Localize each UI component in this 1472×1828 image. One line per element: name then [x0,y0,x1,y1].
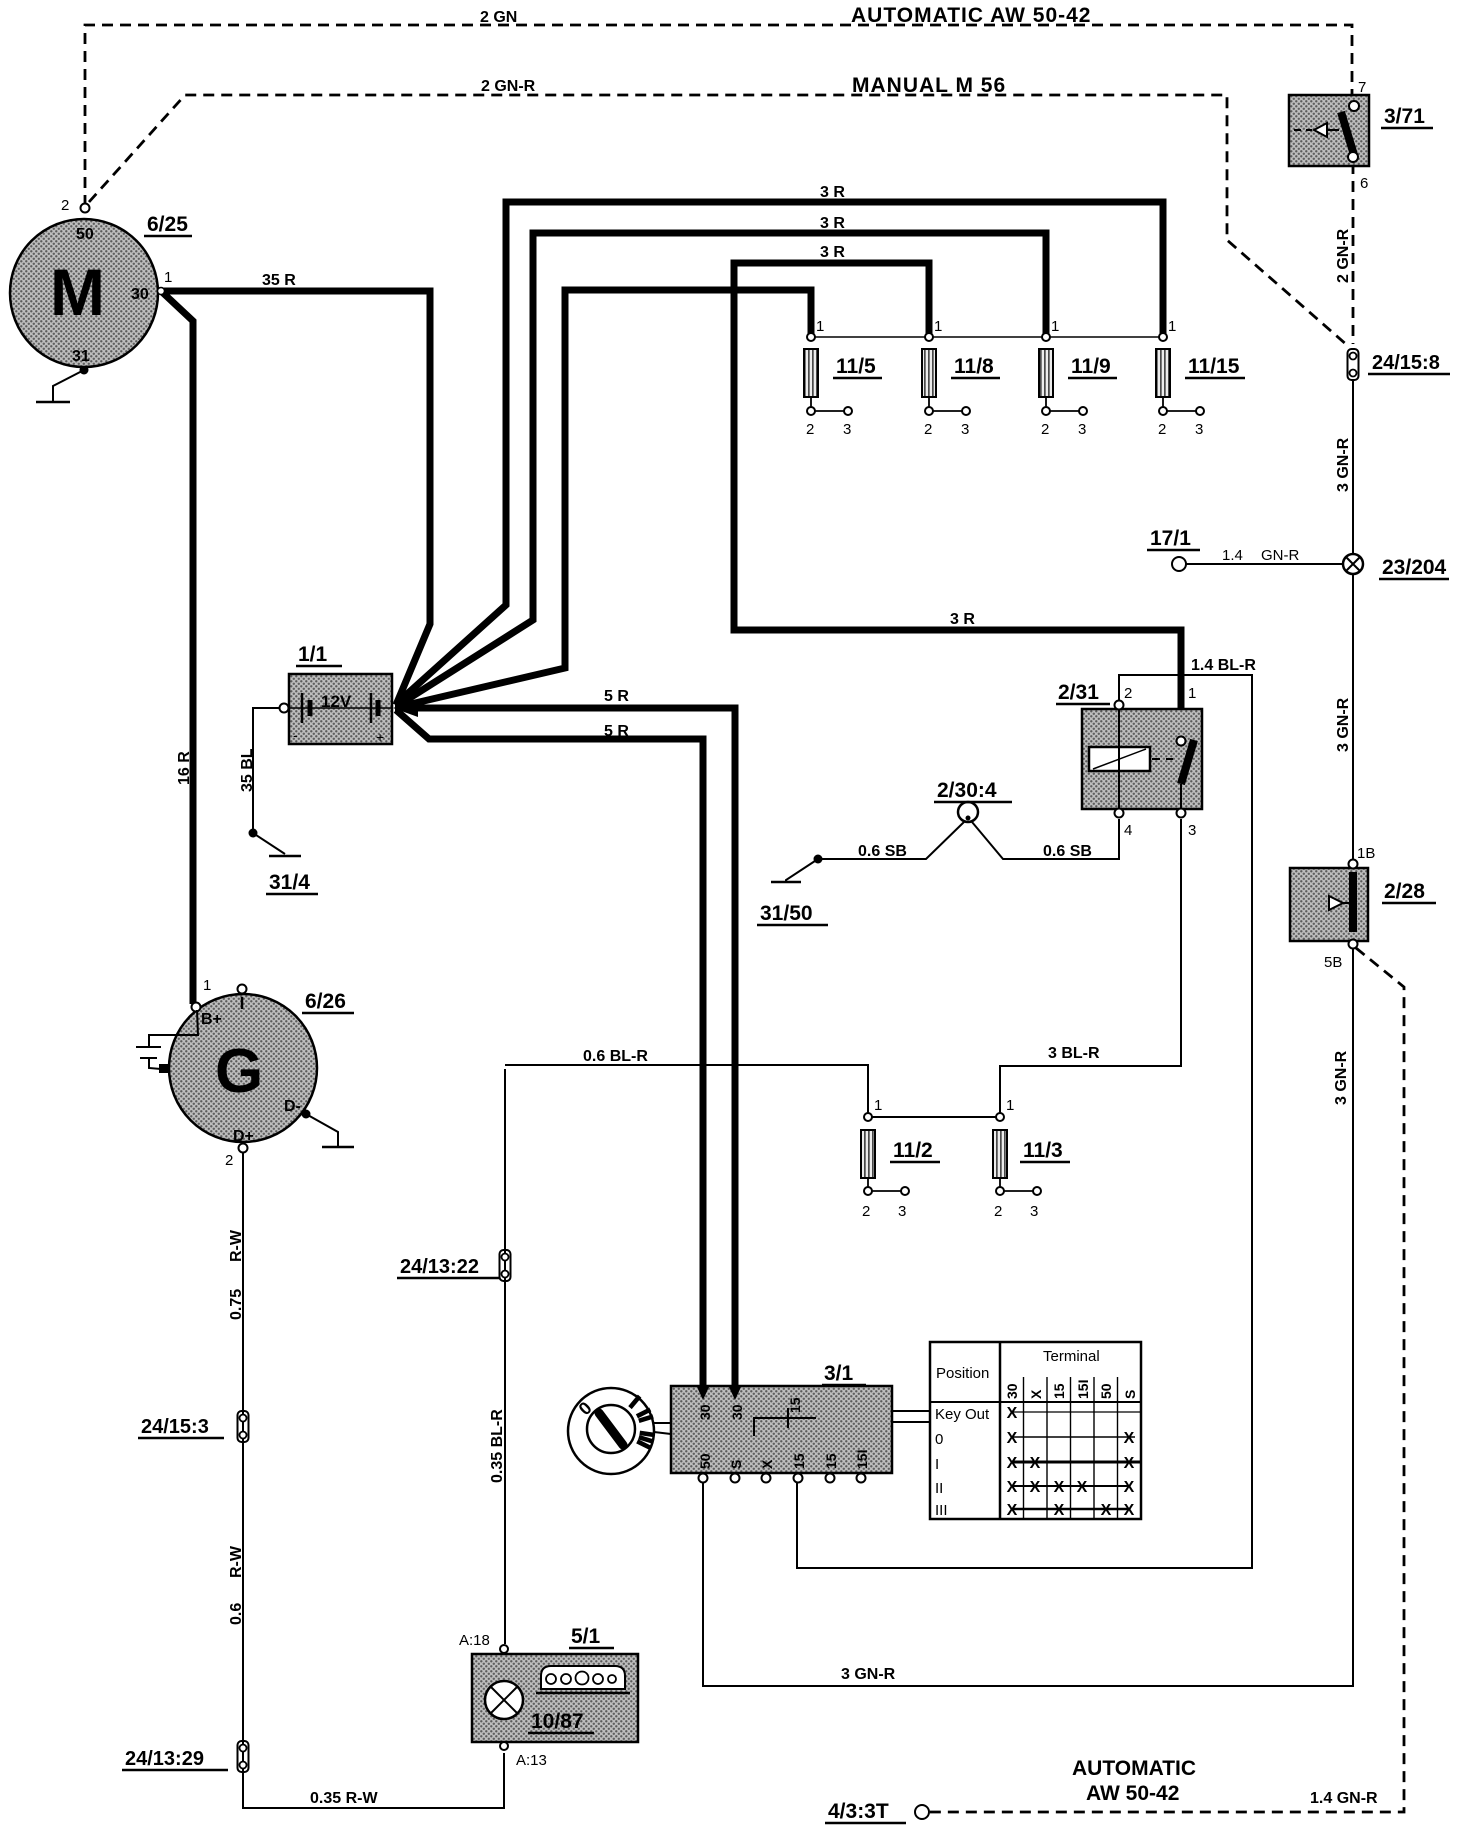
svg-text:X: X [759,1459,775,1469]
svg-text:X: X [1124,1479,1135,1496]
svg-text:3: 3 [843,421,851,438]
svg-text:6/25: 6/25 [147,213,188,236]
svg-text:3 BL-R: 3 BL-R [1048,1045,1100,1062]
svg-text:2: 2 [1041,421,1049,438]
svg-text:0.35 R-W: 0.35 R-W [310,1790,378,1807]
svg-text:M: M [50,255,105,329]
svg-text:3: 3 [1030,1203,1038,1220]
svg-text:2 GN-R: 2 GN-R [481,78,536,95]
svg-text:2: 2 [924,421,932,438]
svg-text:2: 2 [1124,685,1132,702]
svg-text:R-W: R-W [228,1545,245,1578]
svg-text:AUTOMATIC AW 50-42: AUTOMATIC AW 50-42 [851,4,1091,27]
svg-text:0: 0 [935,1431,943,1448]
svg-text:1: 1 [1051,318,1059,335]
svg-text:0.6 BL-R: 0.6 BL-R [583,1048,648,1065]
svg-text:31: 31 [72,348,90,365]
svg-text:1B: 1B [1357,845,1375,862]
svg-text:15: 15 [1051,1383,1067,1399]
svg-text:11/9: 11/9 [1071,355,1111,378]
svg-text:X: X [1124,1430,1135,1447]
svg-text:4/3:3T: 4/3:3T [828,1800,889,1823]
svg-text:X: X [1054,1502,1065,1519]
svg-text:30: 30 [697,1404,713,1420]
svg-text:11/8: 11/8 [954,355,994,378]
svg-text:II: II [935,1480,943,1497]
svg-text:1: 1 [164,269,172,286]
svg-text:0.6 SB: 0.6 SB [858,843,907,860]
svg-text:0.6 SB: 0.6 SB [1043,843,1092,860]
svg-text:4: 4 [1124,822,1132,839]
svg-text:2/30:4: 2/30:4 [937,779,997,802]
svg-text:6/26: 6/26 [305,990,346,1013]
svg-text:15I: 15I [1075,1380,1091,1399]
svg-text:3: 3 [1188,822,1196,839]
svg-text:12V: 12V [321,692,352,711]
svg-text:3: 3 [898,1203,906,1220]
svg-text:10/87: 10/87 [531,1710,584,1733]
svg-text:15: 15 [791,1453,807,1469]
svg-text:0.35 BL-R: 0.35 BL-R [489,1409,506,1483]
svg-text:2: 2 [862,1203,870,1220]
svg-text:X: X [1030,1479,1041,1496]
svg-text:3 R: 3 R [820,244,845,261]
svg-text:11/5: 11/5 [836,355,876,378]
svg-text:R-W: R-W [228,1229,245,1262]
svg-text:3: 3 [1195,421,1203,438]
svg-text:X: X [1101,1502,1112,1519]
svg-text:2: 2 [994,1203,1002,1220]
svg-text:1/1: 1/1 [298,643,328,666]
svg-text:X: X [1007,1479,1018,1496]
svg-text:B+: B+ [201,1011,222,1028]
svg-text:S: S [1122,1390,1138,1399]
svg-text:2/31: 2/31 [1058,681,1099,704]
svg-text:35 BL: 35 BL [239,748,256,792]
svg-text:1: 1 [816,318,824,335]
svg-text:1: 1 [934,318,942,335]
svg-text:1: 1 [1006,1097,1014,1114]
svg-text:1: 1 [203,977,211,994]
svg-text:1: 1 [1168,318,1176,335]
svg-text:3 R: 3 R [820,184,845,201]
svg-text:D+: D+ [233,1128,254,1145]
svg-text:2 GN: 2 GN [480,9,517,26]
svg-text:3 R: 3 R [950,611,975,628]
svg-text:2: 2 [806,421,814,438]
svg-text:1.4 BL-R: 1.4 BL-R [1191,657,1256,674]
svg-text:30: 30 [1004,1383,1020,1399]
svg-text:2: 2 [61,197,69,214]
svg-text:G: G [215,1037,263,1106]
svg-text:3 R: 3 R [820,215,845,232]
svg-text:3: 3 [961,421,969,438]
svg-text:3 GN-R: 3 GN-R [841,1666,896,1683]
svg-text:16 R: 16 R [176,751,193,785]
svg-text:2: 2 [225,1152,233,1169]
svg-text:30: 30 [131,286,149,303]
svg-text:MANUAL M 56: MANUAL M 56 [852,74,1006,97]
svg-text:X: X [1007,1455,1018,1472]
svg-text:X: X [1077,1479,1088,1496]
svg-text:5B: 5B [1324,954,1342,971]
svg-text:3 GN-R: 3 GN-R [1335,697,1352,752]
svg-text:GN-R: GN-R [1261,547,1299,564]
svg-text:Terminal: Terminal [1043,1348,1100,1365]
svg-text:2: 2 [1158,421,1166,438]
svg-text:2/28: 2/28 [1384,880,1425,903]
svg-text:5/1: 5/1 [571,1625,601,1648]
svg-text:3/1: 3/1 [824,1362,854,1385]
svg-text:24/15:3: 24/15:3 [141,1416,209,1438]
svg-text:3: 3 [1078,421,1086,438]
svg-text:X: X [1054,1479,1065,1496]
svg-text:X: X [1028,1389,1044,1399]
svg-text:3 GN-R: 3 GN-R [1333,1050,1350,1105]
svg-text:1.4 GN-R: 1.4 GN-R [1310,1790,1378,1807]
svg-text:11/2: 11/2 [893,1139,933,1162]
svg-text:1: 1 [874,1097,882,1114]
svg-text:6: 6 [1360,175,1368,192]
svg-text:11/15: 11/15 [1188,355,1240,378]
svg-text:III: III [935,1502,948,1519]
svg-text:23/204: 23/204 [1382,556,1447,579]
svg-text:7: 7 [1358,79,1366,96]
svg-text:31/50: 31/50 [760,902,813,925]
svg-text:1: 1 [1188,685,1196,702]
svg-text:3/71: 3/71 [1384,105,1425,128]
svg-text:30: 30 [729,1404,745,1420]
svg-text:AUTOMATIC: AUTOMATIC [1072,1757,1196,1780]
svg-text:0.6: 0.6 [228,1603,245,1625]
svg-text:50: 50 [76,226,94,243]
svg-text:0.75: 0.75 [228,1289,245,1320]
svg-text:X: X [1007,1430,1018,1447]
svg-text:31/4: 31/4 [269,871,310,894]
svg-text:11/3: 11/3 [1023,1139,1063,1162]
svg-text:24/13:29: 24/13:29 [125,1748,204,1770]
svg-text:5 R: 5 R [604,723,629,740]
svg-text:2 GN-R: 2 GN-R [1335,228,1352,283]
svg-text:35 R: 35 R [262,272,296,289]
svg-text:+: + [376,729,384,745]
svg-text:5 R: 5 R [604,688,629,705]
svg-text:D-: D- [284,1098,301,1115]
svg-text:50: 50 [1098,1383,1114,1399]
svg-text:1.4: 1.4 [1222,547,1243,564]
svg-text:A:13: A:13 [516,1752,547,1769]
svg-text:24/13:22: 24/13:22 [400,1256,479,1278]
svg-text:15I: 15I [854,1450,870,1469]
svg-text:-: - [293,727,298,743]
svg-text:X: X [1007,1405,1018,1422]
svg-text:X: X [1030,1455,1041,1472]
svg-text:X: X [1124,1455,1135,1472]
svg-text:Position: Position [936,1365,989,1382]
svg-text:X: X [1007,1502,1018,1519]
svg-text:I: I [935,1456,939,1473]
svg-text:Key Out: Key Out [935,1406,990,1423]
svg-text:3 GN-R: 3 GN-R [1335,437,1352,492]
svg-text:AW 50-42: AW 50-42 [1086,1782,1179,1805]
svg-text:X: X [1124,1502,1135,1519]
svg-text:A:18: A:18 [459,1632,490,1649]
svg-text:50: 50 [697,1453,713,1469]
svg-text:S: S [728,1460,744,1469]
svg-text:24/15:8: 24/15:8 [1372,352,1440,374]
svg-text:17/1: 17/1 [1150,527,1191,550]
svg-text:15: 15 [823,1453,839,1469]
svg-text:15: 15 [787,1397,803,1413]
